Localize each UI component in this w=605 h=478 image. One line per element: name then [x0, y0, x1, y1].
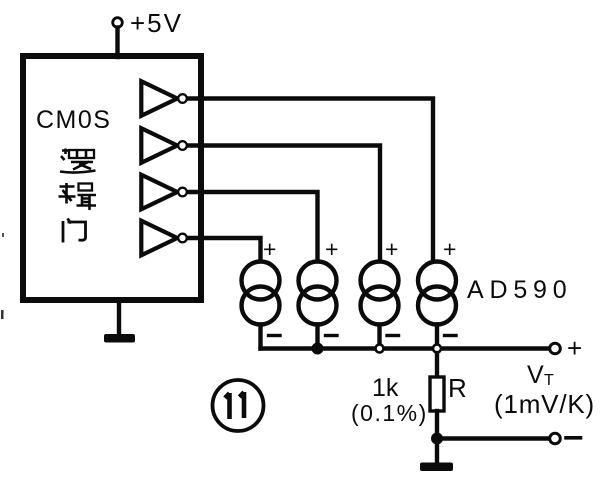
terminal + output: [550, 343, 561, 354]
terminal - output: [550, 433, 561, 444]
ground bar right: [420, 463, 453, 472]
minus label I4: [445, 334, 457, 337]
wire box to ground: [117, 300, 121, 336]
svg-text:1k: 1k: [372, 374, 399, 402]
junction dot minus node: [432, 433, 443, 444]
minus label I3: [387, 334, 399, 337]
svg-text:T: T: [544, 372, 554, 389]
wire I4 bottom: [435, 325, 439, 349]
wire node to ground: [435, 439, 439, 464]
hanzi 门: [63, 219, 86, 243]
junction ring R node: [433, 345, 441, 353]
figure number 11 circle: [213, 380, 264, 431]
wire gate1 to source I4: [189, 99, 434, 262]
scan speck left edge: [1, 310, 4, 319]
scan speck left edge 2: [2, 233, 4, 237]
inverter gate 3: [141, 175, 177, 210]
current source I2: [299, 262, 337, 300]
wire I1 bottom: [258, 325, 262, 349]
svg-text:+: +: [443, 236, 456, 262]
junction dot I2: [312, 343, 323, 354]
output bus wire: [261, 346, 551, 350]
inverter gate 4: [141, 221, 177, 256]
inverter gate 1: [141, 81, 177, 116]
svg-text:AD590: AD590: [467, 276, 572, 304]
current source I3: [361, 262, 399, 300]
svg-text:+5V: +5V: [130, 8, 183, 38]
current source I4 AD590: [418, 262, 456, 300]
wire gate3 to source I2: [189, 192, 318, 261]
inverter gate 2: [141, 128, 177, 163]
wire gate2 to source I3: [189, 146, 381, 262]
wire I2 bottom: [315, 325, 319, 349]
svg-text:(1mV/K): (1mV/K): [494, 389, 595, 419]
resistor R: [430, 377, 444, 411]
svg-text:+: +: [263, 236, 276, 262]
ground bar left: [104, 334, 135, 343]
svg-text:R: R: [448, 373, 467, 403]
svg-text:+: +: [567, 333, 582, 363]
wire node to minus terminal: [437, 436, 549, 440]
wire I3 bottom: [377, 325, 381, 349]
wire resistor to node: [435, 411, 439, 439]
svg-text:(0.1%): (0.1%): [351, 400, 428, 426]
power terminal +5V: [113, 18, 123, 28]
hanzi 辑: [59, 183, 97, 210]
CMOS logic-gate box U1: [23, 56, 201, 300]
hanzi 逻: [60, 149, 96, 173]
svg-text:+: +: [325, 236, 338, 262]
wire bus to resistor: [435, 353, 439, 377]
wire gate4 to source I1: [189, 238, 261, 261]
minus label I1: [269, 334, 281, 337]
svg-text:V: V: [527, 361, 544, 389]
svg-text:+: +: [385, 236, 398, 262]
current source I1: [242, 262, 280, 300]
junction ring I3: [376, 345, 384, 353]
minus label I2: [326, 334, 338, 337]
wire +5V to box: [115, 28, 119, 58]
svg-text:CM0S: CM0S: [36, 106, 111, 134]
